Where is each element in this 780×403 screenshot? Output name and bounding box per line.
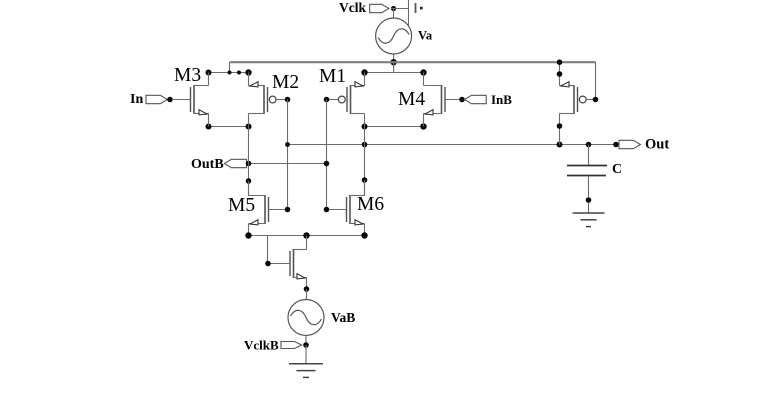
wire M2 gate to M5 gate xyxy=(287,100,289,210)
node Mtail gate junction xyxy=(265,261,271,267)
wire rail right drop xyxy=(595,62,597,99)
svg-text:M3: M3 xyxy=(174,65,201,86)
node M4 gate junction xyxy=(459,97,465,103)
wire M7 drain down xyxy=(559,114,561,145)
wire pair1 top xyxy=(209,72,249,74)
junction xyxy=(362,177,368,183)
svg-text:InB: InB xyxy=(491,92,512,107)
wire M5 src down xyxy=(248,224,250,236)
port VclkB xyxy=(281,342,302,349)
junction xyxy=(304,286,310,292)
junction xyxy=(361,232,367,238)
junction xyxy=(285,142,290,147)
svg-text:M2: M2 xyxy=(272,72,299,93)
capacitor C top plate xyxy=(567,165,607,167)
ground xyxy=(573,212,605,214)
junction xyxy=(586,197,592,203)
wire rail left drop xyxy=(229,62,231,72)
junction xyxy=(206,70,212,76)
wire M6 drain up xyxy=(364,180,366,196)
wire M3 drain up xyxy=(208,73,210,86)
wire M4 drain down xyxy=(423,114,425,127)
junction node OutB xyxy=(246,161,252,167)
node M1 gate junction xyxy=(324,97,330,103)
junction xyxy=(245,232,251,238)
node M5 gate junction xyxy=(285,207,291,213)
junction xyxy=(557,71,563,77)
voltage source VaB xyxy=(288,300,324,336)
port In xyxy=(146,95,167,103)
wire Out vertical xyxy=(364,127,366,197)
transistor Mtail xyxy=(293,249,295,278)
transistor M5 xyxy=(264,195,266,224)
svg-text:Vclk: Vclk xyxy=(339,0,366,15)
svg-text:VaB: VaB xyxy=(331,310,355,325)
junction xyxy=(245,69,251,75)
junction xyxy=(586,142,592,148)
wire xyxy=(393,9,395,19)
svg-text:In: In xyxy=(130,92,143,107)
capacitor C bottom plate xyxy=(567,175,606,177)
wire net Out horizontal xyxy=(288,144,617,146)
node In junction xyxy=(167,97,173,103)
junction xyxy=(303,232,309,238)
wire xyxy=(306,289,308,300)
wire pair1 bottom xyxy=(209,126,249,128)
wire xyxy=(305,345,307,364)
wire M1 src up xyxy=(364,73,366,86)
svg-text:M6: M6 xyxy=(357,194,384,215)
node Vclk junction xyxy=(391,6,396,11)
node M7 gate junction xyxy=(593,97,599,103)
transistor M7 xyxy=(573,85,575,114)
junction on rail xyxy=(390,59,396,65)
wire M2 src up xyxy=(248,73,250,86)
junction xyxy=(228,71,232,75)
wire pair2 top xyxy=(365,72,424,74)
junction xyxy=(557,123,563,129)
port InB xyxy=(465,95,487,103)
node VclkB junction xyxy=(303,342,309,348)
wire OutB vertical xyxy=(248,127,250,197)
node M2 gate junction xyxy=(285,97,291,103)
junction xyxy=(362,124,368,130)
svg-text:VclkB: VclkB xyxy=(244,338,279,353)
svg-text:M5: M5 xyxy=(228,195,255,216)
wire M6 src down xyxy=(364,224,366,236)
svg-text:Va: Va xyxy=(418,29,433,43)
wire Mtail drain up xyxy=(306,236,308,250)
wire tail gate up xyxy=(267,236,269,264)
transistor M2 xyxy=(263,85,265,114)
junction xyxy=(361,69,367,75)
svg-text:M1: M1 xyxy=(319,66,346,87)
wire M1 gate to M6 gate xyxy=(326,100,328,210)
dc source bar short xyxy=(415,3,417,13)
wire M5 drain up xyxy=(248,181,250,196)
junction xyxy=(206,124,212,130)
wire M4 src up xyxy=(423,73,425,86)
junction xyxy=(557,142,563,148)
port Out xyxy=(619,140,640,148)
wire xyxy=(305,336,307,346)
wire M7 src up xyxy=(559,62,561,85)
wire tail line xyxy=(249,235,365,237)
wire M2 drain down xyxy=(248,114,250,127)
junction xyxy=(420,69,426,75)
junction xyxy=(237,71,241,75)
wire Va to pair2 xyxy=(393,62,395,72)
junction xyxy=(246,178,252,184)
junction xyxy=(557,59,563,65)
junction xyxy=(246,124,252,130)
ground xyxy=(289,363,323,365)
svg-text:C: C xyxy=(612,162,622,177)
wire net OutB horizontal xyxy=(249,163,327,165)
wire M1 drain down xyxy=(364,114,366,127)
transistor M3 xyxy=(193,85,195,114)
wire cap down xyxy=(588,176,590,213)
junction xyxy=(613,142,619,148)
voltage source Va xyxy=(376,18,412,54)
svg-text:M4: M4 xyxy=(398,89,425,110)
wire xyxy=(393,54,395,62)
transistor M6 xyxy=(349,195,351,224)
port Vclk xyxy=(370,4,389,12)
wire M3 src down xyxy=(208,114,210,127)
port OutB xyxy=(224,159,246,167)
svg-text:Out: Out xyxy=(645,137,669,153)
wire Mtail src down xyxy=(306,278,308,290)
transistor M4 xyxy=(441,85,443,114)
junction xyxy=(324,161,330,167)
dc source bar long xyxy=(408,0,410,26)
wire pair2 bottom xyxy=(365,126,424,128)
wire cap up xyxy=(588,145,590,166)
node M6 gate junction xyxy=(324,207,330,213)
wire top rail xyxy=(230,61,596,63)
junction xyxy=(420,123,426,129)
svg-text:OutB: OutB xyxy=(191,157,224,172)
junction xyxy=(362,142,368,148)
wire xyxy=(391,8,409,10)
dc source plus mark xyxy=(420,7,423,10)
transistor M1 xyxy=(350,85,352,114)
